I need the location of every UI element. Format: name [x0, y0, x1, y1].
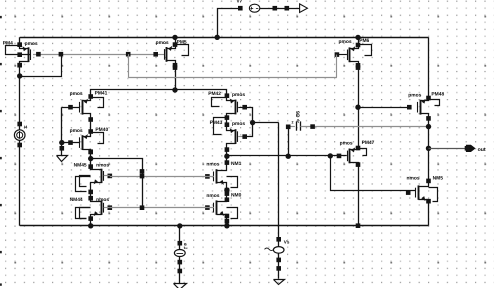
- wire PM40-NM45 link: [90, 152, 92, 167]
- svg-text:PM41: PM41: [95, 91, 108, 97]
- node first stage output: [224, 154, 229, 159]
- wire PM5 source to rail: [175, 37, 177, 44]
- port vdd triangle: [300, 4, 308, 13]
- svg-text:pmos: pmos: [70, 129, 83, 134]
- node NM40 rail junction: [224, 223, 229, 228]
- svg-text:pmos: pmos: [25, 42, 38, 47]
- node NM41 source junction: [224, 187, 229, 192]
- node PM4 drain junction: [17, 73, 22, 78]
- svg-text:pmos: pmos: [339, 40, 352, 45]
- wire ground bottom rail: [20, 225, 429, 227]
- node PM5 drain on W1: [172, 87, 177, 92]
- node cap-W2 junction: [286, 154, 291, 159]
- wire V7 to input port: [260, 8, 300, 10]
- wire W1 PM41/PM5-drain to PM42: [91, 90, 227, 97]
- wire compensation node feed: [253, 122, 279, 124]
- svg-text:pmos: pmos: [232, 122, 245, 127]
- voltage source Vs: [276, 237, 281, 242]
- svg-text:nmos: nmos: [96, 164, 109, 169]
- wire NM46 gate feed: [331, 156, 416, 191]
- svg-text:nmos: nmos: [206, 163, 219, 168]
- wire NM46 source to rail: [428, 201, 430, 226]
- wire cap right to output: [300, 126, 428, 128]
- wire PM6 drain chain to PM47: [358, 65, 360, 148]
- node bias gate junction: [59, 140, 64, 145]
- node PM4 drain squares: [17, 42, 22, 47]
- svg-text:V7: V7: [237, 0, 243, 3]
- wire cap left plate to W2: [288, 127, 290, 156]
- wire VDD top rail: [20, 37, 429, 39]
- ground Vs: [274, 280, 285, 285]
- svg-text:nmos: nmos: [407, 177, 420, 182]
- wire PM6 source to rail: [358, 37, 360, 45]
- node PM48 gate junction: [355, 105, 360, 110]
- wire PM4 drain to bias rail: [20, 55, 62, 77]
- wire PM43 gate lead: [238, 136, 245, 138]
- wire Vs column: [278, 123, 280, 279]
- wire PM6 gate drop: [337, 54, 347, 56]
- svg-text:pmos: pmos: [70, 92, 83, 97]
- node compensation tap: [250, 120, 255, 125]
- wire PM42-PM43 chain: [226, 118, 228, 125]
- wire gray drop x128: [128, 54, 130, 77]
- wire PM47 drain to rail: [358, 165, 360, 226]
- canvas edge ticks: [0, 16, 2, 286]
- wire W2 to PM47 gate: [227, 155, 347, 157]
- wire NM45-NM44 link: [90, 192, 92, 198]
- svg-text:PM6: PM6: [359, 38, 369, 44]
- node NM44 rail junction: [88, 223, 93, 228]
- svg-text:2: 2: [292, 121, 294, 125]
- wire gray bias rail y54: [33, 54, 156, 56]
- svg-text:pmos: pmos: [340, 142, 353, 147]
- node PM6 rail junction: [355, 35, 360, 40]
- svg-text:C6: C6: [295, 111, 301, 118]
- svg-text:pmos: pmos: [408, 93, 421, 98]
- wire bias gates column x62: [61, 107, 63, 155]
- wire nmos gate bus y208: [110, 207, 214, 209]
- svg-text:NM1: NM1: [231, 161, 242, 167]
- voltage source V7: [238, 6, 243, 11]
- svg-text:pmos: pmos: [232, 93, 245, 98]
- wire PM41-PM40 link: [90, 120, 92, 132]
- svg-text:pmos: pmos: [156, 41, 169, 46]
- wire output column x428: [428, 37, 430, 98]
- current source I6: [177, 223, 182, 228]
- wire PM48 gate feed: [358, 107, 409, 109]
- svg-text:nmos: nmos: [96, 198, 109, 203]
- svg-text:NM45: NM45: [74, 163, 87, 169]
- svg-text:nmos: nmos: [206, 194, 219, 199]
- port out: [466, 145, 476, 152]
- svg-text:PM43: PM43: [210, 120, 223, 126]
- node cap wire output junction: [426, 124, 431, 129]
- wire NM44 source to rail: [90, 219, 92, 226]
- current source I4: [17, 122, 22, 127]
- wire to out port: [429, 148, 467, 150]
- wire top source feed: [218, 9, 241, 38]
- wire PM42/PM43 gate tie: [245, 108, 253, 137]
- wire gray mirror rail y77: [128, 77, 337, 79]
- wire NM45 drain to gate bus: [91, 159, 143, 208]
- ground I6: [174, 284, 187, 288]
- svg-text:PM47: PM47: [362, 140, 375, 146]
- svg-text:NM44: NM44: [70, 197, 83, 203]
- wire PM43 drain to NM41: [226, 150, 228, 163]
- node PM5 rail junction: [172, 35, 177, 40]
- wire PM5 drain down to W1: [175, 65, 177, 90]
- node W2 NM46 tap: [328, 153, 333, 158]
- svg-text:PM48: PM48: [431, 92, 444, 98]
- svg-text:out: out: [478, 147, 486, 153]
- wire nmos mirror gate bus y176: [110, 176, 214, 178]
- ground bias chain: [57, 156, 68, 162]
- svg-text:PM42: PM42: [208, 91, 221, 97]
- wire PM42 gate lead: [238, 107, 245, 109]
- svg-text:Vs: Vs: [284, 239, 290, 244]
- wire left branch PM4/I4 column: [19, 37, 21, 45]
- svg-text:NM0: NM0: [231, 193, 242, 199]
- node top feed junction: [215, 35, 220, 40]
- node NM45 drain junction: [88, 156, 93, 161]
- svg-text:1u: 1u: [184, 246, 188, 250]
- svg-text:NM5: NM5: [433, 176, 444, 182]
- node output junction: [426, 146, 431, 151]
